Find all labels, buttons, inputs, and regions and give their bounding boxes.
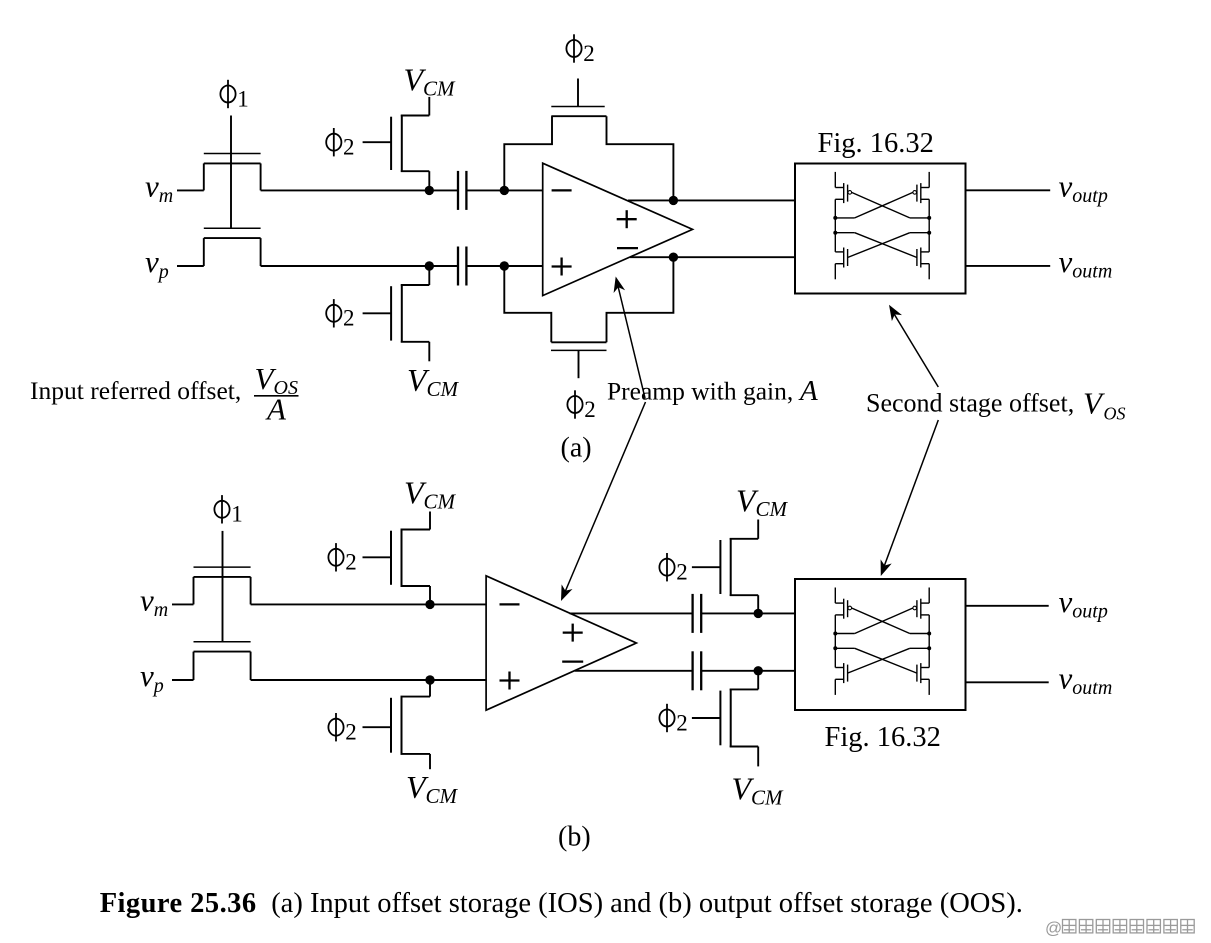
wire gate lead of M6a: [578, 350, 580, 378]
svg-text:1: 1: [231, 502, 243, 527]
transistor phi1 switch M2b on vp line (b): [194, 642, 251, 680]
svg-text:p: p: [152, 675, 164, 697]
transistor M6b phi2 to VCM bottom output (b): [692, 671, 758, 767]
label VCM top-left (b): [404, 475, 457, 514]
capacitor C4 on bottom output (b): [693, 651, 702, 690]
wire vm to cap (a): [261, 189, 458, 191]
junction node top output (b): [754, 609, 763, 618]
svg-text:2: 2: [343, 135, 355, 160]
capacitor C3 on top output (b): [693, 594, 702, 633]
label phi1 (b): [214, 495, 242, 526]
svg-text:2: 2: [345, 550, 357, 575]
svg-text:Fig. 16.32: Fig. 16.32: [825, 722, 941, 753]
svg-text:v: v: [145, 244, 159, 279]
svg-text:2: 2: [345, 720, 357, 745]
junction node on vp at VCM switch (b): [425, 675, 434, 684]
svg-text:v: v: [1059, 244, 1073, 279]
junction node on vm at VCM switch (b): [425, 600, 434, 609]
svg-text:outp: outp: [1072, 601, 1108, 623]
svg-text:m: m: [159, 185, 173, 207]
svg-text:CM: CM: [424, 489, 457, 513]
label phi2 of M4b (b): [328, 713, 356, 745]
label VCM bottom-left (a): [407, 362, 460, 401]
svg-text:@: @: [1045, 919, 1062, 938]
op-amp U1 plus input mark: [552, 258, 572, 276]
caption Figure 25.36: [100, 888, 1023, 919]
svg-text:outp: outp: [1072, 185, 1108, 207]
svg-text:v: v: [140, 582, 154, 617]
junction node minus-input (a): [500, 186, 509, 195]
svg-text:outm: outm: [1072, 677, 1112, 699]
svg-text:Fig. 16.32: Fig. 16.32: [818, 128, 934, 159]
junction node on vm at VCM switch (a): [425, 186, 434, 195]
label Preamp with gain A: [607, 375, 818, 407]
wire voutp output (a): [966, 189, 1051, 191]
svg-text:v: v: [1059, 660, 1073, 695]
svg-text:2: 2: [343, 306, 355, 331]
wire voutm output (a): [966, 265, 1051, 267]
svg-text:Figure 25.36: Figure 25.36: [100, 888, 257, 919]
label voutm (a): [1059, 244, 1113, 283]
wire phi1 gate lead (a): [230, 116, 232, 229]
wire op-amp top output to cap (b): [570, 612, 693, 614]
wire cap C3 to block (b): [701, 612, 795, 614]
svg-text:A: A: [798, 375, 818, 407]
wire op-amp bottom output to block (a): [630, 256, 795, 258]
op-amp U1 preamp triangle (a): [543, 163, 693, 295]
label VCM top-left (a): [404, 62, 457, 101]
label phi2 of M3b (b): [328, 543, 356, 575]
transistor M5b phi2 to VCM top output (b): [692, 520, 758, 614]
arrow from Preamp label to op-amp (a): [614, 277, 645, 399]
wire vm input stub (a): [177, 189, 204, 191]
svg-text:2: 2: [676, 560, 688, 585]
svg-text:CM: CM: [426, 784, 459, 808]
wire phi1 gate lead (b): [222, 531, 224, 642]
cross-coupled latch icon inside U4 (b): [833, 588, 931, 695]
label VCM top-right (b): [736, 482, 789, 521]
wire cap C2 to op-amp (a): [466, 265, 542, 267]
svg-text:v: v: [1059, 584, 1073, 619]
junction node bottom output (b): [754, 666, 763, 675]
transistor M4b phi2 to VCM on vp (b): [363, 680, 431, 769]
svg-text:Second stage offset,: Second stage offset,: [866, 389, 1074, 418]
wire vm to op-amp (b): [251, 603, 487, 605]
op-amp U1 plus output mark: [617, 210, 637, 228]
label phi1 (a): [220, 80, 248, 112]
wire cap C1 to op-amp (a): [466, 189, 542, 191]
transistor M4a phi2 to VCM on vp (a): [363, 266, 430, 361]
svg-text:p: p: [157, 261, 169, 283]
wire voutm output (b): [966, 681, 1049, 683]
svg-text:v: v: [1059, 168, 1073, 203]
arrow from Second stage label to block (a): [889, 305, 938, 387]
svg-text:(a): (a): [561, 433, 592, 464]
transistor M3b phi2 to VCM on vm (b): [363, 512, 431, 605]
svg-text:2: 2: [676, 710, 688, 735]
wire vm input stub (b): [172, 603, 194, 605]
label Second stage offset VOS: [866, 386, 1126, 424]
op-amp U3 plus input mark: [500, 672, 520, 690]
svg-text:(a) Input offset storage (IOS): (a) Input offset storage (IOS) and (b) o…: [271, 888, 1023, 919]
svg-text:A: A: [265, 392, 287, 427]
svg-text:(b): (b): [558, 822, 591, 853]
node label vm (b): [140, 582, 168, 621]
transistor phi1 switch M2a on vp line (a): [204, 228, 261, 266]
wire vp to op-amp (b): [251, 679, 487, 681]
block U2 Fig 16.32 comparator (a): [795, 164, 966, 294]
transistor M5a phi2 feedback switch top (a): [504, 107, 673, 201]
label phi2 of M3a (a): [326, 128, 354, 160]
label voutp (a): [1059, 168, 1108, 207]
node label vm (a): [145, 168, 173, 207]
svg-text:V: V: [1083, 386, 1105, 421]
junction node top output (a): [669, 196, 678, 205]
op-amp U3 plus output mark: [563, 624, 583, 642]
svg-text:CM: CM: [427, 377, 460, 401]
label voutm (b): [1059, 660, 1113, 699]
junction node bottom output (a): [669, 253, 678, 262]
transistor M3a phi2 to VCM on vm (a): [363, 97, 430, 190]
svg-text:outm: outm: [1072, 261, 1112, 283]
label voutp (b): [1059, 584, 1108, 623]
label phi2 of M5b (b): [659, 553, 687, 585]
wire op-amp top output to block (a): [628, 199, 795, 201]
svg-text:1: 1: [237, 86, 249, 111]
capacitor C1 on vm line (a): [458, 171, 466, 210]
node label vp (a): [145, 244, 169, 283]
label phi2 of M6a (a): [567, 390, 595, 422]
wire gate lead of M5a: [577, 79, 579, 107]
capacitor C2 on vp line (a): [458, 247, 466, 286]
wire cap C4 to block (b): [701, 670, 795, 672]
label VCM bottom-right (b): [732, 771, 785, 810]
svg-text:OS: OS: [1104, 404, 1126, 424]
label phi2 of M4a (a): [326, 299, 354, 331]
transistor phi1 switch M1a on vm line (a): [204, 154, 261, 191]
block U4 Fig 16.32 comparator (b): [795, 579, 966, 710]
junction node plus-input (a): [500, 261, 509, 270]
arrow from Second stage label to block (b): [881, 420, 939, 576]
wire op-amp bottom output to cap (b): [575, 670, 693, 672]
svg-text:Preamp with gain,: Preamp with gain,: [607, 377, 793, 406]
label VCM bottom-left (b): [406, 769, 459, 808]
junction node on vp at VCM switch (a): [425, 261, 434, 270]
svg-text:CM: CM: [423, 76, 456, 100]
op-amp U1 minus output mark: [617, 247, 638, 249]
label phi2 of feedback switch M5a (a): [566, 34, 594, 66]
wire vp input stub (b): [172, 679, 194, 681]
wire vp to cap (a): [261, 265, 458, 267]
watermark bottom-right: [1045, 919, 1194, 938]
arrow from Preamp label to op-amp (b): [561, 402, 646, 601]
svg-text:CM: CM: [756, 497, 789, 521]
op-amp U3 minus output mark: [562, 660, 583, 662]
svg-text:CM: CM: [751, 785, 784, 809]
wire vp input stub (a): [177, 265, 204, 267]
op-amp U3 triangle (b): [486, 576, 636, 710]
op-amp U1 minus input mark: [552, 189, 572, 191]
svg-text:m: m: [154, 599, 168, 621]
svg-text:2: 2: [584, 397, 596, 422]
transistor phi1 switch M1b on vm line (b): [194, 567, 251, 604]
op-amp U3 minus input mark: [500, 603, 520, 605]
transistor M6a phi2 feedback switch bottom (a): [504, 257, 673, 350]
node label vp (b): [140, 658, 164, 697]
label phi2 of M6b (b): [659, 704, 687, 736]
svg-text:2: 2: [583, 41, 595, 66]
svg-text:Input referred offset,: Input referred offset,: [30, 376, 241, 405]
svg-text:v: v: [140, 658, 154, 693]
label Input referred offset with fraction VOS/A: [30, 361, 299, 427]
wire voutp output (b): [966, 605, 1049, 607]
svg-text:v: v: [145, 168, 159, 203]
cross-coupled latch icon inside U2 (a): [833, 172, 931, 279]
